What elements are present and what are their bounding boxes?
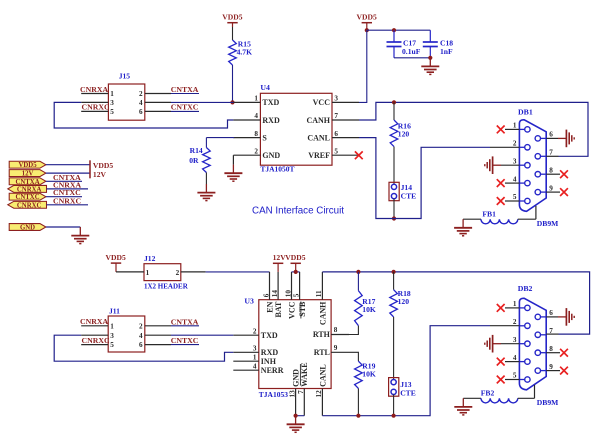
svg-text:WAKE: WAKE	[300, 362, 309, 386]
svg-text:CNRXC: CNRXC	[53, 196, 82, 205]
svg-text:1: 1	[513, 300, 517, 308]
ground DB2 pin3	[501, 343, 519, 345]
wire RXD loop J11 to U3	[54, 335, 233, 361]
svg-text:5: 5	[292, 293, 300, 297]
node junction R17 top	[356, 270, 360, 274]
no-connect X DB1 pin9	[546, 191, 560, 193]
port CNRXC	[8, 201, 47, 208]
node junction J13 bottom	[392, 414, 396, 418]
svg-text:2: 2	[176, 269, 180, 277]
pin 3 J11	[81, 334, 108, 336]
svg-text:4: 4	[139, 332, 143, 340]
svg-text:6: 6	[262, 293, 270, 297]
pin 14 U3 BAT	[277, 272, 279, 300]
wire DB1 pin7	[546, 155, 558, 157]
pin 2 J12	[181, 271, 206, 273]
svg-text:4: 4	[513, 354, 517, 362]
svg-text:VDD5: VDD5	[93, 161, 113, 170]
svg-text:8: 8	[549, 345, 553, 353]
svg-text:CNRXC: CNRXC	[82, 336, 111, 345]
node junction VDD5/VCC	[365, 28, 369, 32]
power VDD5 (top left, feeds R15)	[227, 22, 237, 24]
svg-text:VCC: VCC	[313, 98, 331, 107]
wire U4 GND to ground	[232, 155, 234, 164]
svg-text:6: 6	[334, 130, 338, 138]
pin 10 U3 VCC	[291, 272, 293, 300]
pin 8 U3 RTH	[331, 334, 349, 336]
pin 1 J15	[81, 93, 108, 95]
jumper J13 CTE	[389, 378, 399, 397]
svg-text:1: 1	[254, 95, 258, 103]
svg-text:TXD: TXD	[261, 331, 278, 340]
wire CANL to DB1 pin2	[359, 138, 490, 219]
pin 1 U4 TXD	[233, 101, 260, 103]
svg-text:2: 2	[253, 328, 257, 336]
pin 1 U3 INH	[233, 360, 258, 362]
svg-text:12V: 12V	[93, 170, 107, 179]
svg-text:0.1uF: 0.1uF	[402, 47, 421, 56]
pin 5 U3 STB	[299, 272, 301, 300]
svg-text:120: 120	[398, 297, 410, 306]
svg-text:5: 5	[513, 372, 517, 380]
svg-text:1: 1	[513, 122, 517, 130]
pin 6 J15	[145, 110, 171, 112]
svg-text:VDD5: VDD5	[285, 253, 305, 262]
svg-text:RXD: RXD	[261, 348, 279, 357]
node junction C18 bottom	[428, 56, 432, 60]
pin 6 U4 CANL	[332, 137, 359, 139]
power VDD5 (top, feeds U4 VCC and caps)	[362, 22, 372, 24]
svg-text:3: 3	[253, 345, 257, 353]
no-connect X DB2 pin8	[546, 352, 560, 354]
port 12V	[9, 170, 46, 177]
svg-text:4: 4	[253, 363, 257, 371]
svg-text:3: 3	[110, 99, 114, 107]
svg-text:DB1: DB1	[518, 108, 533, 117]
no-connect X DB1 pin8	[546, 173, 560, 175]
wire	[47, 188, 89, 190]
wire DB2 pin7	[546, 333, 558, 335]
svg-text:9: 9	[549, 363, 553, 371]
pin 4 U4 RXD	[233, 119, 260, 121]
port GND	[9, 224, 46, 231]
svg-text:7: 7	[549, 149, 553, 157]
pin 9 U3 RTL	[331, 351, 349, 353]
svg-text:R14: R14	[190, 146, 203, 155]
node junction J14 bottom	[392, 216, 396, 220]
svg-text:3: 3	[334, 95, 338, 103]
svg-text:4: 4	[254, 112, 258, 120]
IC U4 TJA1050T	[260, 93, 332, 165]
pin 4 U3 NERR	[233, 369, 258, 371]
pin 5 U4 VREF	[332, 154, 359, 156]
ground DB2 pin6	[546, 316, 558, 318]
no-connect X DB2 pin9	[546, 370, 560, 372]
wire CANH to DB1	[359, 102, 588, 156]
svg-text:12V: 12V	[273, 253, 287, 262]
svg-text:1nF: 1nF	[440, 47, 453, 56]
connector J11	[108, 316, 145, 352]
node junction C17 top	[392, 28, 396, 32]
ground R14	[205, 184, 207, 193]
svg-text:12: 12	[315, 390, 323, 398]
svg-text:CANH: CANH	[318, 301, 327, 325]
resistor R14	[206, 137, 234, 139]
wire VCC-STB tie	[292, 271, 300, 273]
power bar VDD5	[89, 160, 91, 169]
resistor R18	[393, 272, 395, 290]
svg-text:5: 5	[110, 341, 114, 349]
node junction R16 top	[392, 100, 396, 104]
svg-text:11: 11	[315, 290, 323, 297]
svg-text:8: 8	[254, 130, 258, 138]
svg-text:VREF: VREF	[308, 151, 330, 160]
svg-text:8: 8	[334, 326, 338, 334]
no-connect X DB2 pin4	[505, 361, 519, 363]
pin 12 U3 CANL	[321, 389, 323, 416]
pin 2 U4 GND	[233, 154, 260, 156]
ground DB1 pin3	[501, 164, 519, 166]
wire	[232, 27, 234, 40]
ground GND port	[79, 227, 81, 236]
svg-text:INH: INH	[261, 357, 277, 366]
resistor R15	[229, 40, 237, 65]
ground DB1 pin6	[546, 137, 558, 139]
wire CANH U3 to DB2 pin7	[322, 272, 589, 334]
pin 4 J11	[145, 334, 171, 336]
node junction R19 bottom	[356, 414, 360, 418]
svg-text:3: 3	[513, 336, 517, 344]
pin 1 J11	[81, 325, 108, 327]
wire	[46, 180, 82, 182]
ground U4 GND	[232, 165, 234, 174]
wire cap bottoms	[394, 57, 430, 59]
pin 1 J12	[116, 271, 144, 273]
svg-text:DB9M: DB9M	[537, 219, 559, 228]
wire J15 pin3 to U4 RXD	[54, 102, 233, 128]
svg-text:CNRXA: CNRXA	[80, 85, 109, 94]
wire U3 GND/WAKE ground	[296, 415, 305, 417]
svg-text:6: 6	[139, 341, 143, 349]
svg-text:2: 2	[513, 318, 517, 326]
svg-text:RXD: RXD	[262, 116, 280, 125]
svg-text:10: 10	[284, 290, 292, 298]
svg-text:NERR: NERR	[261, 366, 284, 375]
wire pin2 J15	[171, 93, 199, 95]
svg-text:VDD5: VDD5	[357, 13, 377, 22]
svg-text:TXD: TXD	[262, 98, 279, 107]
ground FB2	[462, 398, 464, 407]
port CNTXC	[9, 193, 46, 200]
ferrite bead FB2	[463, 397, 481, 399]
svg-text:VDD5: VDD5	[18, 162, 37, 169]
ground caps	[429, 58, 431, 67]
svg-text:CTE: CTE	[401, 191, 417, 200]
pin 6 U3 EN	[269, 272, 271, 300]
pin 3 U3 RXD	[233, 351, 258, 353]
wire J15 pin4 to U4 TXD	[171, 101, 233, 103]
svg-text:6: 6	[139, 108, 143, 116]
svg-text:CNRXC: CNRXC	[17, 202, 42, 209]
svg-text:5: 5	[110, 108, 114, 116]
power 12V (U3 BAT)	[273, 262, 283, 264]
svg-text:4: 4	[139, 99, 143, 107]
pin 7 U3 WAKE	[303, 389, 305, 416]
svg-text:CNTXA: CNTXA	[171, 85, 199, 94]
wire CANL bottom to DB2 pin2	[322, 326, 490, 416]
svg-text:1: 1	[253, 354, 257, 362]
no-connect X DB2 pin5	[505, 379, 519, 381]
wire	[46, 226, 80, 228]
svg-text:3: 3	[110, 332, 114, 340]
svg-text:120: 120	[398, 129, 410, 138]
node junction R18 top	[392, 270, 396, 274]
wire pin2 J11	[171, 325, 199, 327]
svg-text:S: S	[262, 133, 267, 142]
no-connect X VREF	[355, 151, 363, 159]
svg-text:FB1: FB1	[482, 209, 496, 218]
svg-text:J15: J15	[119, 71, 131, 80]
wire DB2 pin2	[490, 325, 519, 327]
node junction GND	[294, 414, 298, 418]
ground FB1	[462, 219, 464, 228]
svg-text:CAN Interface Circuit: CAN Interface Circuit	[252, 206, 344, 217]
pin 3 U4 VCC	[332, 101, 359, 103]
power VDD5 (feeds J12)	[111, 262, 121, 264]
pin 7 U4 CANH	[332, 119, 359, 121]
svg-text:CNTXC: CNTXC	[171, 103, 199, 112]
wire	[46, 164, 90, 166]
port CNRXA	[8, 185, 47, 192]
no-connect X DB1 pin4	[505, 182, 519, 184]
svg-text:CANL: CANL	[307, 133, 330, 142]
svg-text:GND: GND	[292, 369, 301, 387]
svg-text:GND: GND	[262, 151, 280, 160]
pin 5 J11	[81, 344, 108, 346]
svg-text:STB: STB	[298, 301, 307, 317]
pin 5 J15	[81, 110, 108, 112]
svg-text:CNRXA: CNRXA	[17, 186, 42, 193]
svg-text:CANH: CANH	[306, 116, 330, 125]
svg-text:RTH: RTH	[313, 330, 331, 339]
wire DB1 pin2	[490, 146, 519, 148]
port VDD5	[9, 161, 46, 168]
wire R17 to RTH	[349, 326, 358, 335]
svg-text:GND: GND	[20, 225, 35, 232]
svg-text:6: 6	[549, 131, 553, 139]
resistor R16	[393, 102, 395, 120]
svg-text:8: 8	[549, 166, 553, 174]
pin 3 J15	[81, 101, 108, 103]
svg-text:DB2: DB2	[518, 284, 533, 293]
pin 2 J11	[145, 325, 171, 327]
capacitor C18	[429, 30, 431, 42]
svg-text:9: 9	[334, 344, 338, 352]
svg-text:CNTXA: CNTXA	[15, 179, 39, 186]
svg-text:CNRXC: CNRXC	[82, 102, 111, 111]
svg-text:3: 3	[513, 157, 517, 165]
svg-text:CANL: CANL	[318, 364, 327, 387]
svg-text:5: 5	[334, 147, 338, 155]
wire	[46, 172, 90, 174]
header J12	[144, 264, 181, 281]
svg-text:4: 4	[513, 175, 517, 183]
svg-text:CNTXC: CNTXC	[15, 194, 39, 201]
svg-text:0R: 0R	[189, 156, 199, 165]
IC U3 TJA1053	[259, 300, 331, 389]
svg-text:J12: J12	[144, 254, 156, 263]
no-connect X DB1 pin1	[505, 128, 519, 130]
svg-text:FB2: FB2	[481, 389, 495, 398]
pin 8 U4 S	[233, 137, 260, 139]
wire VDD5 to VCC	[359, 30, 367, 102]
svg-text:VDD5: VDD5	[106, 253, 126, 262]
capacitor C17	[393, 30, 395, 42]
node junction R15/TXD	[230, 100, 234, 104]
svg-text:TJA1050T: TJA1050T	[260, 165, 294, 174]
svg-text:10K: 10K	[362, 305, 376, 314]
svg-text:12V: 12V	[22, 171, 34, 178]
svg-text:2: 2	[513, 140, 517, 148]
svg-text:RTL: RTL	[314, 348, 330, 357]
connector J15	[108, 84, 144, 120]
svg-text:2: 2	[254, 147, 258, 155]
wire	[47, 204, 89, 206]
svg-text:TJA1053: TJA1053	[259, 390, 288, 399]
pin 6 J11	[145, 344, 171, 346]
pin 2 J15	[145, 93, 171, 95]
ferrite bead FB1	[463, 218, 481, 220]
svg-text:2: 2	[139, 322, 143, 330]
svg-text:10K: 10K	[362, 369, 376, 378]
svg-text:VCC: VCC	[287, 301, 296, 319]
svg-text:CNTXA: CNTXA	[171, 317, 199, 326]
wire J12 pin2 to U3 EN	[206, 271, 270, 273]
resistor R19	[349, 352, 358, 361]
svg-text:CTE: CTE	[400, 388, 416, 397]
port CNTXA	[9, 178, 46, 185]
svg-text:13: 13	[288, 390, 296, 398]
svg-text:U3: U3	[244, 297, 254, 306]
svg-text:1: 1	[110, 90, 114, 98]
no-connect X DB1 pin5	[505, 200, 519, 202]
wire	[46, 196, 82, 198]
svg-text:DB9M: DB9M	[537, 398, 559, 407]
jumper J14 CTE	[389, 182, 399, 200]
pin 13 U3 GND	[295, 389, 297, 416]
svg-text:J11: J11	[109, 307, 120, 316]
wire pin6 J11	[171, 344, 199, 346]
wire VDD5 to caps	[367, 29, 431, 31]
wire pin6 J15	[171, 110, 199, 112]
power VDD5 (U3 VCC/STB)	[291, 262, 301, 264]
pin 2 U3 TXD	[233, 334, 258, 336]
wire J11 pin4 to U3 TXD	[171, 334, 233, 336]
svg-text:1: 1	[146, 269, 150, 277]
svg-text:7: 7	[297, 390, 305, 394]
wire	[232, 65, 234, 102]
svg-text:7: 7	[334, 112, 338, 120]
pin 4 J15	[145, 101, 171, 103]
pin 11 U3 CANH	[321, 272, 323, 300]
svg-text:2: 2	[139, 90, 143, 98]
svg-text:6: 6	[549, 309, 553, 317]
no-connect X DB2 pin1	[505, 307, 519, 309]
svg-text:4.7K: 4.7K	[237, 48, 252, 57]
svg-text:U4: U4	[260, 83, 270, 92]
svg-text:BAT: BAT	[274, 301, 283, 318]
svg-text:CNRXA: CNRXA	[80, 317, 109, 326]
ground U3	[295, 416, 297, 425]
svg-text:1X2 HEADER: 1X2 HEADER	[144, 282, 189, 290]
svg-text:CNTXC: CNTXC	[171, 336, 199, 345]
svg-text:5: 5	[513, 193, 517, 201]
node junction VDD5/VCC/STB	[294, 270, 298, 274]
svg-text:14: 14	[271, 290, 279, 298]
svg-text:9: 9	[549, 184, 553, 192]
power bar 12V	[89, 169, 91, 178]
svg-text:VDD5: VDD5	[222, 13, 242, 22]
svg-text:1: 1	[110, 322, 114, 330]
resistor R17	[357, 272, 359, 291]
